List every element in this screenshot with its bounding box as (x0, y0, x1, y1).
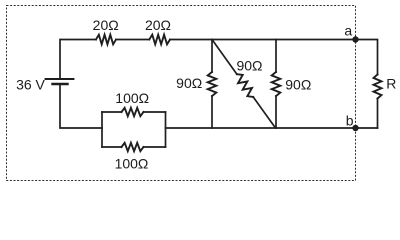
wire: diagonal bottom segment (253, 97, 275, 128)
parallel block top branch wire left (102, 111, 122, 113)
battery V1 long plate (46, 78, 74, 80)
node b junction dot (352, 125, 358, 131)
resistor 90ohm left zigzag (208, 72, 217, 96)
wire: R bottom to rail (377, 99, 379, 129)
wire: 90ohm left leg bottom (211, 96, 213, 128)
wire: 90ohm right leg bottom (275, 96, 277, 128)
node a junction dot (352, 36, 358, 42)
parallel block bottom branch wire right (144, 146, 166, 148)
resistor R zigzag (374, 75, 382, 99)
parallel block left junction wire (101, 112, 103, 147)
svg-text:100Ω: 100Ω (115, 90, 149, 106)
wire: diagonal top segment (212, 40, 237, 75)
resistor 90ohm diagonal zigzag (237, 74, 253, 97)
svg-text:90Ω: 90Ω (285, 76, 311, 92)
resistor 90ohm right zigzag (272, 72, 281, 96)
battery V1 short plate (53, 83, 68, 85)
resistor R2 20ohm zigzag (149, 35, 170, 45)
svg-text:b: b (346, 113, 354, 129)
svg-text:a: a (344, 23, 352, 39)
svg-text:20Ω: 20Ω (93, 17, 119, 33)
svg-text:20Ω: 20Ω (145, 17, 171, 33)
parallel block bottom branch wire left (102, 146, 122, 148)
resistor R1 20ohm zigzag (96, 35, 116, 45)
wire: battery top to top rail (60, 40, 96, 80)
parallel block right junction wire (165, 112, 167, 147)
parallel block top branch wire right (144, 111, 166, 113)
wire: battery bottom to bottom rail (60, 84, 102, 128)
resistor 100ohm bottom zigzag (122, 143, 144, 151)
wire: 90ohm left leg top (211, 40, 213, 73)
svg-text:36 V: 36 V (16, 77, 45, 93)
svg-text:90Ω: 90Ω (236, 57, 262, 73)
svg-text:R: R (386, 76, 396, 92)
dashed boundary box (7, 6, 356, 181)
wire: parallel block to node b rail (166, 127, 378, 129)
wire: 90ohm right leg top (275, 40, 277, 73)
wire: right loop down through R (377, 74, 379, 76)
wire: top rail to corner right (170, 40, 378, 75)
svg-text:90Ω: 90Ω (176, 75, 202, 91)
resistor 100ohm top zigzag (122, 108, 144, 116)
wire between 20ohm resistors (116, 39, 149, 41)
svg-text:100Ω: 100Ω (115, 155, 149, 171)
